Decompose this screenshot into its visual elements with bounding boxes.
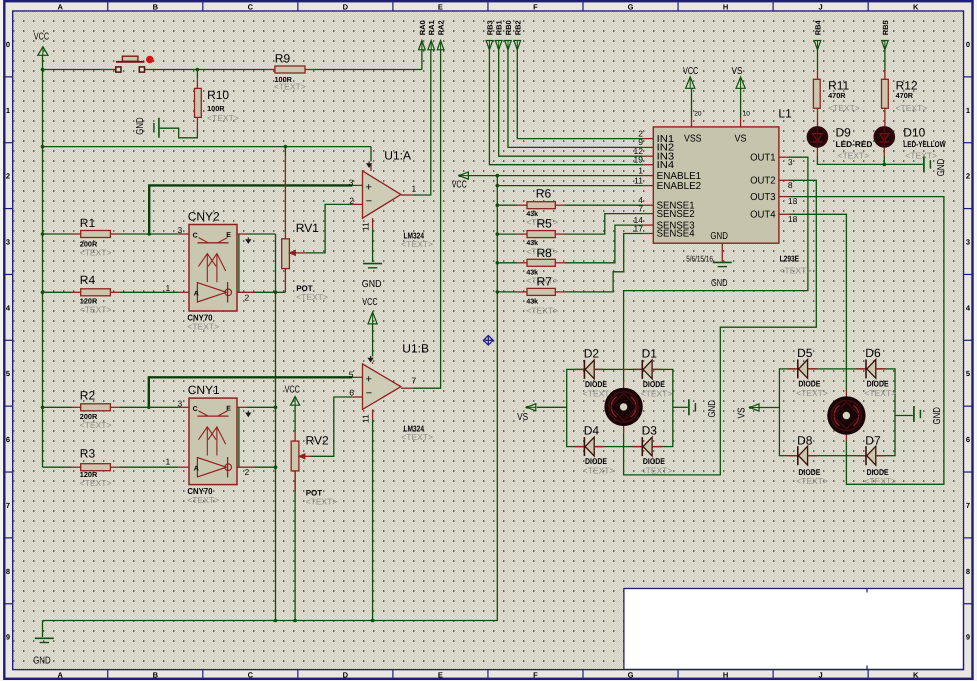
svg-text:6: 6 <box>349 388 354 398</box>
svg-text:<TEXT>: <TEXT> <box>207 113 239 123</box>
svg-text:<TEXT>: <TEXT> <box>796 388 828 398</box>
svg-text:<TEXT>: <TEXT> <box>526 306 558 316</box>
svg-text:GND: GND <box>135 117 146 135</box>
svg-text:R9: R9 <box>275 52 291 66</box>
svg-text:<TEXT>: <TEXT> <box>796 476 828 486</box>
svg-text:<TEXT>: <TEXT> <box>80 420 112 430</box>
svg-text:R4: R4 <box>80 273 96 287</box>
svg-text:5: 5 <box>6 369 10 378</box>
svg-text:2: 2 <box>349 195 354 205</box>
svg-text:6: 6 <box>6 435 10 444</box>
svg-text:2: 2 <box>245 467 250 477</box>
svg-text:VS: VS <box>517 412 528 423</box>
svg-text:RB0: RB0 <box>504 20 513 35</box>
svg-text:OUT2: OUT2 <box>750 176 776 187</box>
svg-text:RA1: RA1 <box>427 20 436 35</box>
svg-text:OUT3: OUT3 <box>750 192 776 203</box>
svg-text:C: C <box>193 233 198 240</box>
svg-text:VCC: VCC <box>683 66 698 77</box>
svg-text:GND: GND <box>936 159 947 177</box>
svg-text:R8: R8 <box>537 246 553 260</box>
svg-text:<TEXT>: <TEXT> <box>401 239 433 249</box>
svg-text:7: 7 <box>6 501 10 510</box>
svg-text:6: 6 <box>966 435 970 444</box>
svg-text:<TEXT>: <TEXT> <box>187 495 219 505</box>
svg-text:43k: 43k <box>526 298 538 306</box>
svg-text:20: 20 <box>694 110 702 117</box>
svg-text:<TEXT>: <TEXT> <box>641 466 673 476</box>
svg-text:+: + <box>366 181 372 193</box>
svg-text:19: 19 <box>634 155 644 165</box>
svg-text:1: 1 <box>166 456 171 466</box>
svg-text:LED-RED: LED-RED <box>836 139 873 149</box>
svg-text:RB3: RB3 <box>485 20 494 35</box>
svg-text:7: 7 <box>412 376 417 386</box>
svg-text:VS: VS <box>732 66 743 77</box>
svg-text:3: 3 <box>349 177 354 187</box>
svg-text:100R: 100R <box>207 104 225 113</box>
svg-text:3: 3 <box>178 225 183 235</box>
svg-text:RA0: RA0 <box>418 20 427 35</box>
svg-text:RB1: RB1 <box>495 20 504 35</box>
svg-text:B: B <box>153 670 159 679</box>
svg-text:RB5: RB5 <box>881 20 890 35</box>
svg-text:R3: R3 <box>80 446 96 460</box>
svg-text:<TEXT>: <TEXT> <box>401 432 433 442</box>
svg-text:9: 9 <box>966 633 970 642</box>
svg-text:GND: GND <box>710 231 728 242</box>
svg-text:A: A <box>58 3 64 12</box>
svg-text:0: 0 <box>6 40 10 49</box>
svg-text:C: C <box>193 406 198 413</box>
svg-text:GND: GND <box>707 400 718 418</box>
svg-text:R1: R1 <box>80 216 96 230</box>
svg-text:5/6/15/16: 5/6/15/16 <box>686 254 713 264</box>
svg-text:8: 8 <box>966 567 970 576</box>
svg-text:H: H <box>723 670 728 679</box>
svg-text:J: J <box>819 3 823 12</box>
svg-text:VCC: VCC <box>362 297 377 308</box>
svg-text:D6: D6 <box>865 346 881 360</box>
svg-text:A: A <box>58 670 64 679</box>
svg-text:RV1: RV1 <box>296 221 319 235</box>
svg-text:7: 7 <box>966 501 970 510</box>
svg-text:L1: L1 <box>778 106 792 120</box>
svg-text:2: 2 <box>6 172 10 181</box>
svg-text:<TEXT>: <TEXT> <box>838 150 870 160</box>
svg-text:9: 9 <box>6 633 10 642</box>
svg-text:RB2: RB2 <box>513 20 522 35</box>
svg-text:5: 5 <box>966 369 970 378</box>
svg-text:<TEXT>: <TEXT> <box>583 466 615 476</box>
svg-text:SENSE2: SENSE2 <box>657 209 695 220</box>
svg-text:D1: D1 <box>642 347 658 361</box>
svg-text:<TEXT>: <TEXT> <box>905 150 937 160</box>
svg-text:K: K <box>913 3 919 12</box>
svg-text:OUT4: OUT4 <box>750 210 776 221</box>
svg-text:SENSE4: SENSE4 <box>657 229 695 240</box>
svg-text:CNY2: CNY2 <box>188 210 220 224</box>
svg-text:D3: D3 <box>642 424 658 438</box>
svg-text:F: F <box>533 670 538 679</box>
svg-text:−: − <box>366 195 372 207</box>
svg-text:GND: GND <box>362 279 382 290</box>
svg-text:+: + <box>366 373 372 385</box>
svg-text:<TEXT>: <TEXT> <box>864 476 896 486</box>
svg-text:<TEXT>: <TEXT> <box>80 248 112 258</box>
svg-text:C: C <box>248 3 254 12</box>
svg-text:U1:B: U1:B <box>402 341 429 355</box>
svg-text:R6: R6 <box>536 187 552 201</box>
svg-text:470R: 470R <box>828 91 846 100</box>
svg-text:VSS: VSS <box>684 134 702 145</box>
svg-text:3: 3 <box>788 157 793 167</box>
svg-text:D2: D2 <box>584 347 600 361</box>
svg-text:1: 1 <box>412 184 417 194</box>
svg-text:ENABLE2: ENABLE2 <box>657 181 702 192</box>
svg-text:VCC: VCC <box>34 32 49 43</box>
svg-text:1: 1 <box>638 165 643 175</box>
svg-text:10: 10 <box>743 110 751 117</box>
svg-text:8: 8 <box>788 180 793 190</box>
svg-text:D4: D4 <box>584 424 600 438</box>
svg-text:<TEXT>: <TEXT> <box>80 478 112 488</box>
svg-text:<TEXT>: <TEXT> <box>80 305 112 315</box>
svg-text:H: H <box>723 3 728 12</box>
svg-text:VS: VS <box>737 407 748 418</box>
svg-text:<TEXT>: <TEXT> <box>296 292 328 302</box>
svg-text:VS: VS <box>735 134 747 145</box>
svg-text:R2: R2 <box>80 389 96 403</box>
svg-text:LED-YELLOW: LED-YELLOW <box>903 139 946 149</box>
svg-text:D7: D7 <box>865 434 881 448</box>
svg-text:E: E <box>438 670 443 679</box>
svg-text:IN4: IN4 <box>657 160 675 171</box>
svg-text:8: 8 <box>6 567 10 576</box>
svg-text:−: − <box>366 387 372 399</box>
svg-text:J: J <box>819 670 823 679</box>
svg-text:<TEXT>: <TEXT> <box>274 81 306 91</box>
svg-text:F: F <box>533 3 538 12</box>
svg-text:D10: D10 <box>903 125 925 139</box>
svg-text:<TEXT>: <TEXT> <box>187 321 219 331</box>
svg-text:D: D <box>343 3 349 12</box>
svg-text:U1:A: U1:A <box>384 148 411 162</box>
svg-text:<TEXT>: <TEXT> <box>780 266 812 276</box>
svg-text:<TEXT>: <TEXT> <box>864 388 896 398</box>
svg-text:3: 3 <box>6 238 10 247</box>
svg-text:R7: R7 <box>537 274 553 288</box>
svg-text:E: E <box>438 3 443 12</box>
svg-text:C: C <box>248 670 254 679</box>
svg-text:D8: D8 <box>797 434 813 448</box>
svg-text:B: B <box>153 3 159 12</box>
svg-text:A: A <box>194 290 199 297</box>
svg-text:GND: GND <box>33 655 51 666</box>
svg-text:<TEXT>: <TEXT> <box>828 103 860 113</box>
svg-text:<TEXT>: <TEXT> <box>641 388 673 398</box>
svg-text:3: 3 <box>178 399 183 409</box>
svg-text:<TEXT>: <TEXT> <box>306 497 338 507</box>
svg-text:13: 13 <box>788 196 798 206</box>
svg-text:11: 11 <box>361 414 371 423</box>
svg-text:0: 0 <box>966 40 970 49</box>
svg-text:R10: R10 <box>207 88 229 102</box>
svg-text:RA2: RA2 <box>437 20 446 35</box>
svg-text:18: 18 <box>788 214 798 224</box>
svg-text:GND: GND <box>932 407 943 425</box>
svg-text:1: 1 <box>166 283 171 293</box>
svg-text:G: G <box>628 670 634 679</box>
svg-text:7: 7 <box>638 203 643 213</box>
svg-text:3: 3 <box>966 238 970 247</box>
svg-text:1: 1 <box>966 106 970 115</box>
svg-text:D5: D5 <box>797 346 813 360</box>
svg-text:VCC: VCC <box>285 385 300 396</box>
svg-text:VCC: VCC <box>452 180 467 191</box>
svg-text:11: 11 <box>634 175 643 185</box>
svg-text:L293E: L293E <box>780 254 800 264</box>
svg-text:D: D <box>343 670 349 679</box>
svg-text:CNY1: CNY1 <box>188 383 220 397</box>
svg-text:11: 11 <box>361 222 371 231</box>
svg-text:17: 17 <box>634 223 644 233</box>
svg-text:1: 1 <box>6 106 10 115</box>
svg-text:2: 2 <box>966 172 970 181</box>
svg-text:R5: R5 <box>537 217 553 231</box>
svg-text:OUT1: OUT1 <box>750 152 776 163</box>
svg-text:GND: GND <box>711 278 728 289</box>
svg-text:RB4: RB4 <box>814 19 823 35</box>
svg-text:<TEXT>: <TEXT> <box>896 103 928 113</box>
svg-text:2: 2 <box>245 292 250 302</box>
svg-text:5: 5 <box>349 369 354 379</box>
svg-text:470R: 470R <box>896 91 914 100</box>
svg-text:A: A <box>194 465 199 472</box>
svg-text:D9: D9 <box>836 125 852 139</box>
svg-text:G: G <box>628 3 634 12</box>
svg-text:RV2: RV2 <box>306 433 329 447</box>
svg-text:K: K <box>913 670 919 679</box>
